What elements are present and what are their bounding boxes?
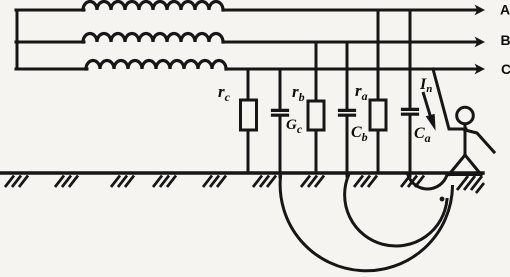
- winding L_C (phase C coil): [86, 61, 226, 70]
- wire A main run: [223, 9, 478, 12]
- wire B main run: [223, 41, 478, 44]
- earth current arc medium (from C_b ground to feet): [345, 174, 447, 246]
- current I_n arrow: [423, 92, 435, 129]
- earth current arc large (from C_c ground to feet): [280, 177, 452, 271]
- capacitor C_c branch wire bottom: [279, 117, 282, 177]
- svg-text:In: In: [419, 76, 432, 95]
- left bus vertical (source neutral side): [16, 10, 19, 69]
- ground surface line: [1, 171, 483, 174]
- resistor r_c branch wire top: [247, 69, 250, 100]
- hatching group 6: [253, 176, 276, 188]
- winding L_B (phase B coil): [83, 34, 223, 43]
- capacitor C_c branch wire top: [279, 69, 282, 110]
- winding L_A (phase A coil): [83, 2, 223, 11]
- capacitor C_b plates: [340, 110, 355, 115]
- person arm touching wire C: [433, 69, 466, 129]
- hatching group 4: [153, 176, 176, 188]
- earth current arc small (from C_a ground to feet): [408, 175, 447, 189]
- wire C main run: [226, 68, 478, 71]
- resistor r_b branch wire top: [315, 42, 318, 101]
- svg-text:Cb: Cb: [351, 124, 368, 144]
- arrow tip wire B: [475, 37, 486, 48]
- wire C left stub: [16, 68, 87, 71]
- capacitor C_a plates: [403, 109, 418, 114]
- earth dot near feet: [440, 197, 445, 202]
- svg-text:ra: ra: [355, 81, 368, 103]
- hatching group 8: [354, 176, 377, 188]
- svg-text:Gc: Gc: [286, 117, 303, 136]
- svg-text:B: B: [501, 32, 510, 48]
- hatching group 1: [5, 176, 484, 194]
- hatching group 9: [401, 176, 424, 188]
- resistor r_b body: [308, 101, 324, 130]
- svg-text:rc: rc: [218, 82, 231, 104]
- svg-text:C: C: [501, 61, 510, 77]
- capacitor C_a branch wire bottom: [409, 116, 412, 176]
- hatching group 5: [203, 176, 226, 188]
- arrow tip wire C: [475, 64, 486, 75]
- hatching group 2: [55, 176, 78, 188]
- person body: [464, 124, 467, 156]
- capacitor C_b branch wire bottom: [346, 117, 349, 176]
- person head: [457, 107, 474, 124]
- capacitor C_b branch wire top: [346, 42, 349, 110]
- wire B left stub: [16, 41, 84, 44]
- capacitor C_c plates: [273, 110, 288, 115]
- resistor r_a branch wire bottom: [377, 130, 380, 173]
- person right arm: [465, 130, 494, 152]
- hatching group 3: [111, 176, 134, 188]
- hatching group 7: [301, 176, 324, 188]
- capacitor C_a branch wire top: [409, 10, 412, 109]
- hatching group 10 under person: [457, 176, 484, 193]
- resistor r_c body: [241, 100, 257, 130]
- arrow tip wire A: [440, 5, 485, 202]
- svg-text:rb: rb: [292, 82, 305, 104]
- person legs: [449, 155, 481, 175]
- svg-text:Ca: Ca: [414, 125, 431, 145]
- resistor r_a branch wire top: [377, 10, 380, 100]
- resistor r_b branch wire bottom: [315, 130, 318, 173]
- svg-text:A: A: [500, 2, 510, 18]
- wire A left stub: [16, 9, 84, 12]
- resistor r_a body: [370, 100, 386, 130]
- resistor r_c branch wire bottom: [247, 130, 250, 173]
